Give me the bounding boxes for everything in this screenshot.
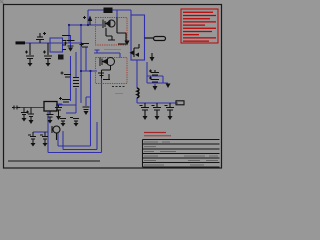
component body X1	[58, 55, 64, 60]
wire aux vertical	[75, 52, 77, 78]
wire drain branch	[116, 10, 118, 17]
wire gate bus top	[69, 24, 102, 26]
capacitor C10	[21, 108, 27, 119]
ground C1	[28, 63, 33, 67]
transformer T1 box	[50, 38, 63, 52]
Q1 leads	[106, 17, 126, 43]
ground C15	[31, 143, 36, 147]
title block text	[144, 142, 218, 165]
junction dots	[68, 24, 92, 72]
capacitor C19 tap	[83, 107, 90, 110]
Q2 leads	[98, 66, 111, 81]
capacitor C15	[28, 132, 36, 143]
ground C11	[29, 120, 34, 124]
ground C18	[56, 116, 61, 120]
title block	[143, 140, 220, 168]
resistor R2 ticks	[73, 78, 79, 87]
diode D4 small	[12, 106, 20, 110]
ground arrow snubber	[153, 86, 158, 91]
capacitor C11 polarized	[26, 108, 34, 121]
wire feedback drop 1	[58, 71, 91, 146]
capacitor C20 low1	[60, 119, 66, 124]
ground C10	[22, 118, 27, 122]
ground C7	[155, 116, 160, 120]
resistor R1 on top wire	[104, 8, 112, 13]
capacitor C17 cluster top	[59, 97, 70, 102]
capacitor C3 above rail	[36, 32, 46, 43]
transistor Q3	[52, 126, 60, 140]
net stub output	[176, 101, 184, 105]
note text lines	[183, 12, 216, 41]
capacitor C9b snubber bottom	[149, 77, 159, 83]
capacitor C1	[25, 43, 34, 63]
wire vcc loop	[69, 10, 131, 43]
capacitor C4 on vertical	[64, 41, 75, 47]
transistor Q2	[100, 58, 115, 67]
ground arrow C4	[68, 48, 73, 52]
transistor Q1	[103, 20, 115, 29]
power port arrow up	[89, 20, 91, 25]
capacitor C2	[43, 43, 52, 63]
capacitor C18 cluster left	[55, 105, 62, 116]
wire aux vertical low	[66, 88, 76, 113]
ground C8	[168, 116, 173, 120]
regulator U2 box	[44, 102, 57, 112]
label Q1 red	[104, 49, 121, 51]
diode D2 arrow	[118, 43, 126, 45]
mosfet box Q1 dashed	[96, 18, 128, 46]
wire cluster rail	[56, 104, 76, 106]
capacitor C23	[61, 72, 72, 78]
wire feedback tap	[86, 97, 91, 106]
wire gate2 vertical	[81, 25, 97, 103]
capacitor C7 output	[152, 103, 162, 116]
ground C6	[143, 116, 148, 120]
corner cursor mark	[0, 0, 4, 4]
ground C16	[43, 143, 48, 147]
ground C21	[74, 123, 79, 127]
ground C22	[48, 120, 53, 124]
capacitor C6 output	[140, 103, 150, 116]
mosfet box Q2 dashed	[96, 58, 128, 84]
wire feedback drop 2	[63, 122, 97, 150]
sheet border frame	[4, 5, 222, 169]
pin stub with sleeve	[145, 37, 166, 41]
capacitor C8 output	[165, 103, 175, 116]
IC U1 wire loop box	[131, 15, 145, 60]
ground C19	[84, 111, 89, 115]
ground arrow loop end	[166, 84, 171, 89]
transistor Q4 pins	[134, 44, 139, 57]
power port arrow down	[151, 53, 153, 58]
title text red	[144, 133, 171, 136]
gnd dash under box2	[112, 86, 126, 88]
wire output rail	[137, 102, 178, 104]
wire cap rail 3	[33, 131, 48, 133]
pin ticks T1	[62, 36, 70, 50]
ground bus line	[8, 160, 100, 162]
wire input rail	[24, 42, 82, 44]
capacitor C21 low2	[70, 118, 79, 124]
plus tick	[83, 16, 86, 19]
wire snubber loop	[147, 62, 168, 86]
wire IC bottom to inductor	[136, 60, 138, 103]
inductor L1	[137, 88, 139, 98]
capacitor C16	[40, 132, 48, 143]
wire regulator rail	[12, 104, 62, 108]
wire cap branch x70	[70, 35, 72, 101]
ground C20	[61, 123, 66, 127]
capacitor C22 under U2	[47, 112, 54, 121]
label Q2 red	[115, 93, 123, 95]
connector J1 input	[16, 41, 26, 44]
wire lower gate	[86, 47, 120, 71]
ground C2	[46, 63, 51, 67]
capacitor C9 snubber top	[149, 70, 159, 76]
capacitor C5 gate	[80, 43, 90, 48]
wire feedback drop 3	[48, 78, 102, 153]
note box red	[181, 9, 218, 43]
